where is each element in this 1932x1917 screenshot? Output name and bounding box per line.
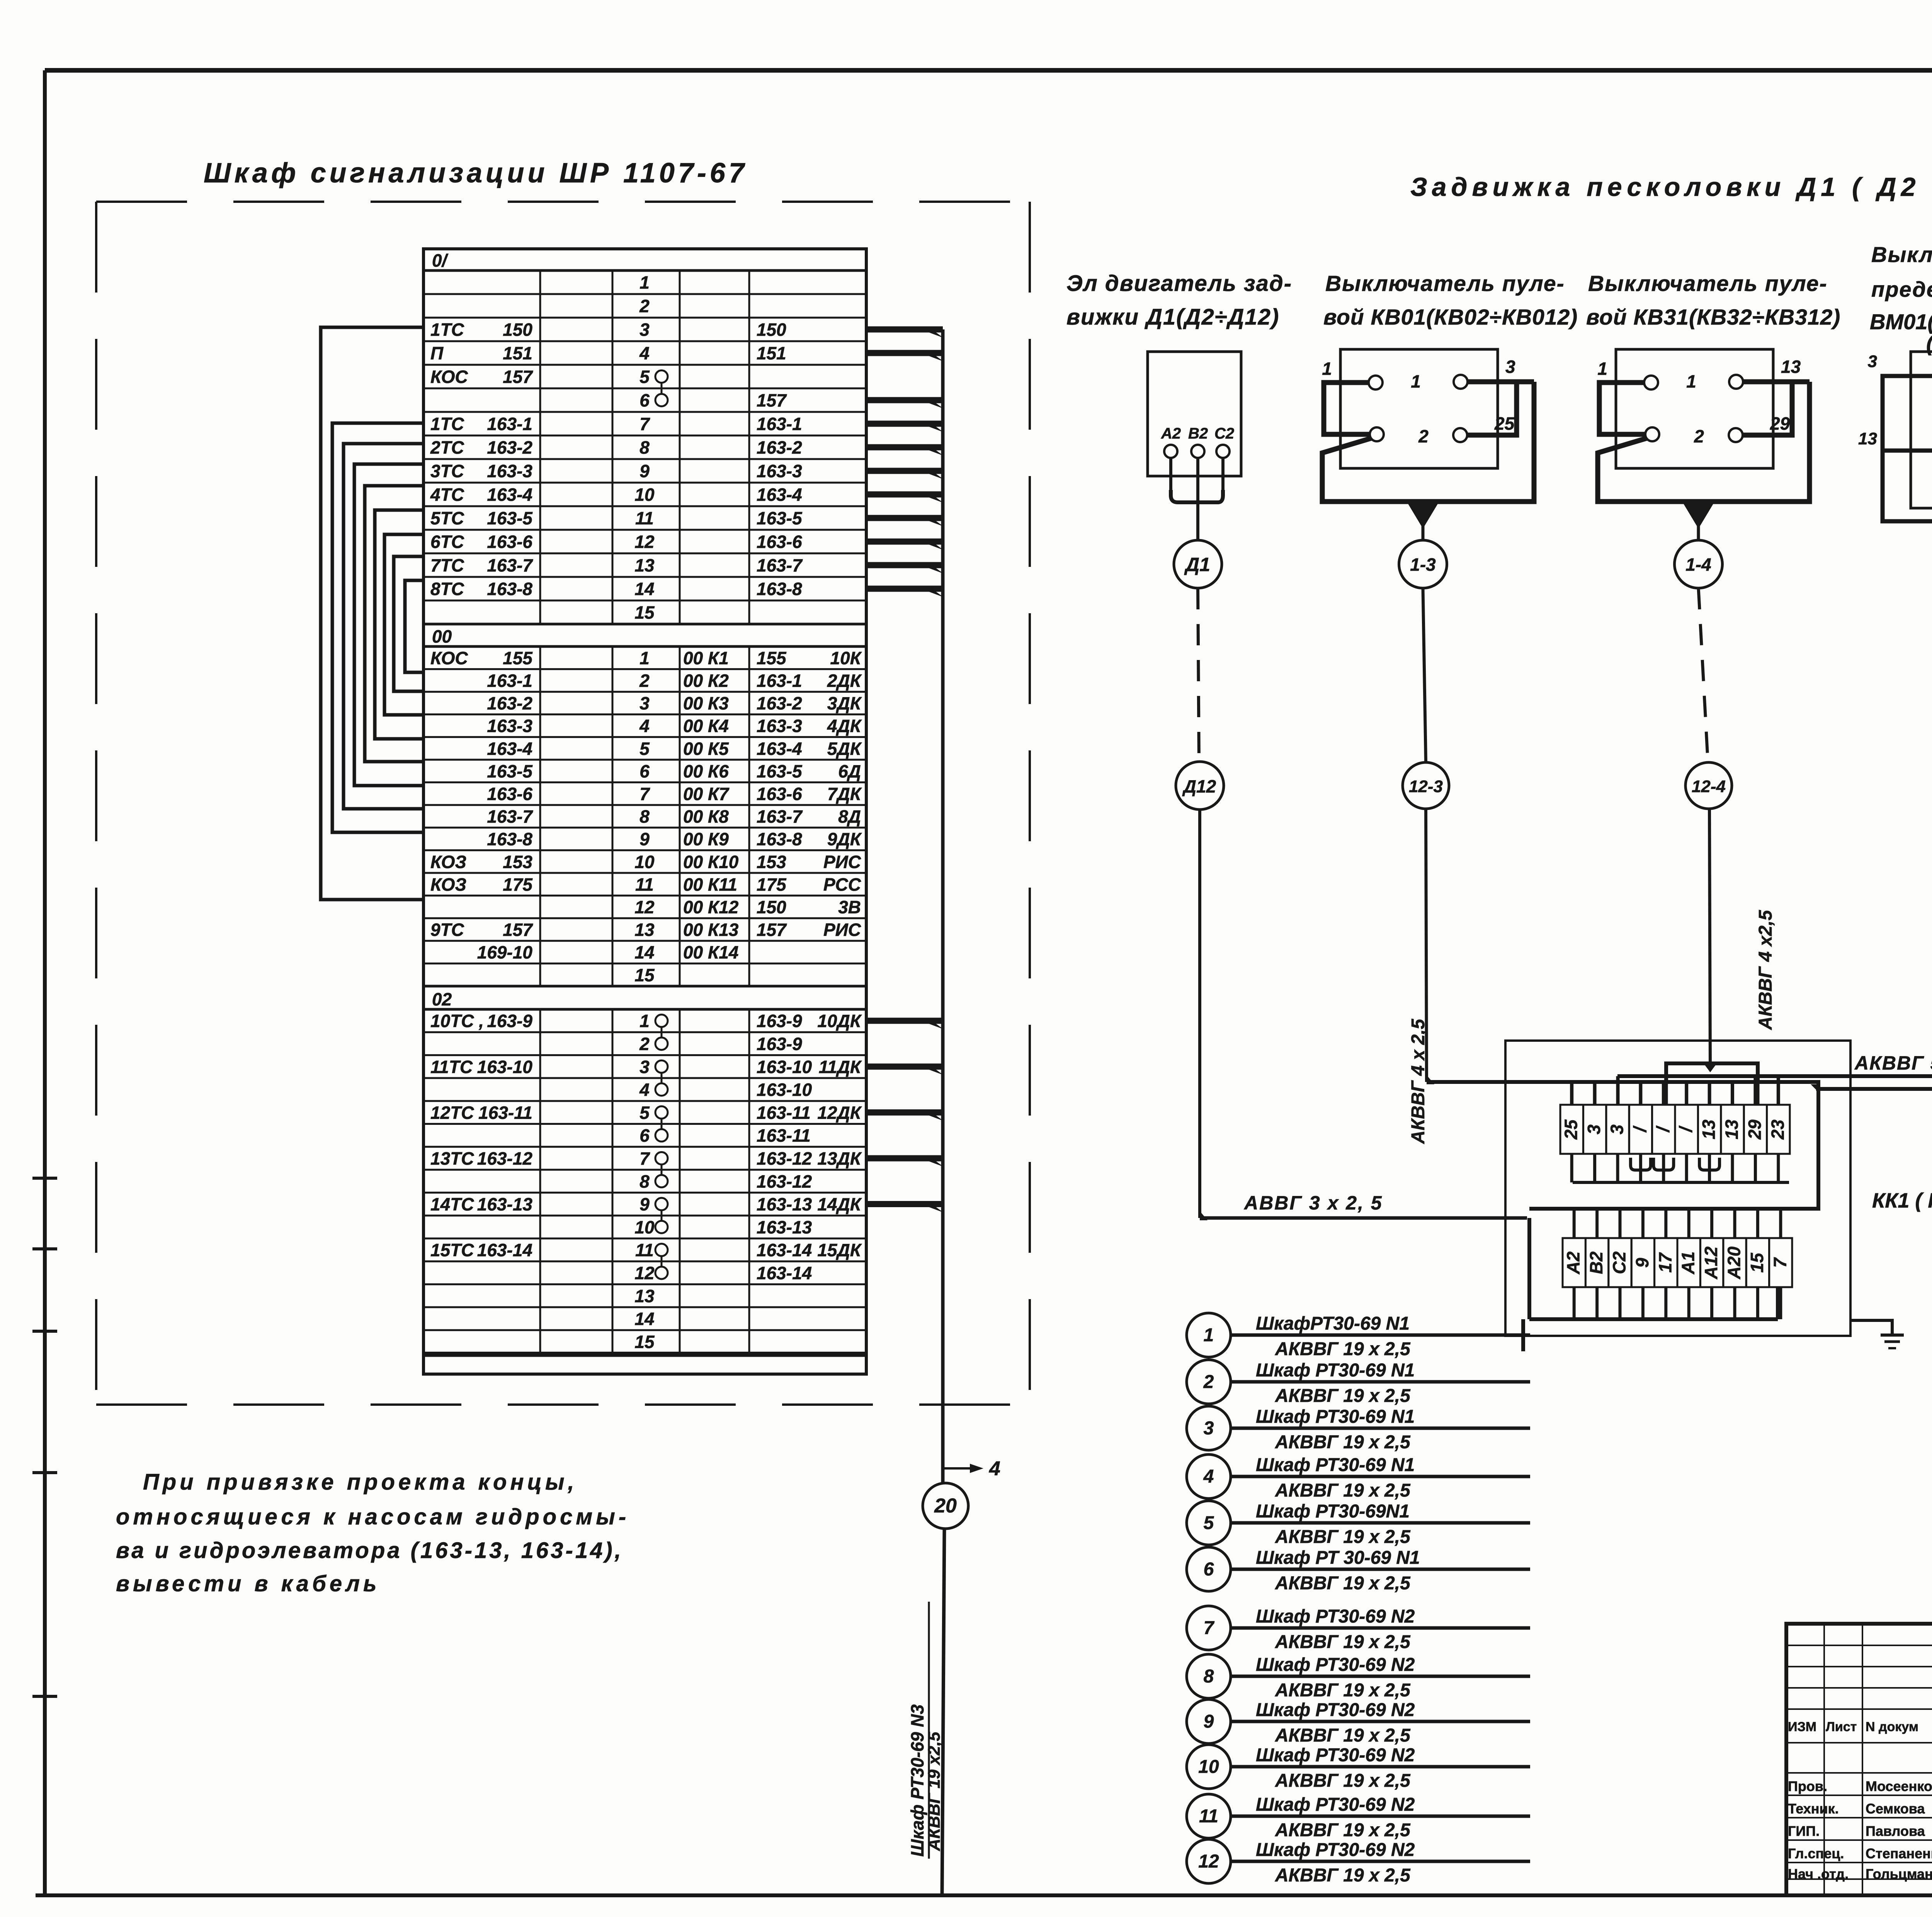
svg-text:10ТС ,: 10ТС , [430, 1011, 484, 1031]
svg-text:КОС: КОС [430, 648, 468, 668]
svg-text:Выключатель муфты: Выключатель муфты [1871, 242, 1932, 267]
svg-text:2: 2 [1418, 426, 1429, 446]
svg-text:12ДК: 12ДК [817, 1102, 862, 1123]
svg-text:163-11: 163-11 [478, 1102, 532, 1123]
svg-text:АКВВГ 5 х 2,5: АКВВГ 5 х 2,5 [1854, 1052, 1932, 1074]
svg-text:169-10: 169-10 [477, 942, 533, 963]
svg-text:14ТС: 14ТС [430, 1194, 474, 1214]
svg-text:1: 1 [1597, 359, 1607, 379]
svg-text:9: 9 [639, 829, 650, 849]
svg-text:ГИП.: ГИП. [1788, 1823, 1820, 1839]
svg-text:АКВВГ 19 х 2,5: АКВВГ 19 х 2,5 [1275, 1527, 1411, 1547]
svg-text:6: 6 [639, 761, 650, 781]
svg-text:163-5: 163-5 [757, 508, 803, 528]
svg-text:20: 20 [934, 1495, 957, 1517]
svg-text:А1: А1 [1678, 1252, 1698, 1275]
svg-text:С2: С2 [1609, 1251, 1629, 1274]
svg-text:АКВВГ 19 х 2,5: АКВВГ 19 х 2,5 [1275, 1865, 1411, 1886]
svg-text:5: 5 [639, 1102, 650, 1123]
svg-text:3ТС: 3ТС [430, 461, 464, 481]
svg-text:163-2: 163-2 [487, 693, 532, 713]
svg-text:Пров.: Пров. [1788, 1778, 1827, 1794]
svg-text:150: 150 [503, 320, 532, 340]
svg-text:Павлова: Павлова [1866, 1823, 1925, 1839]
svg-text:163-1: 163-1 [757, 670, 802, 691]
svg-text:17: 17 [1655, 1252, 1675, 1273]
svg-text:РСС: РСС [823, 874, 861, 895]
svg-text:7: 7 [1770, 1257, 1790, 1268]
svg-text:3: 3 [1607, 1124, 1627, 1135]
svg-text:00 К5: 00 К5 [683, 738, 729, 759]
svg-text:Семкова: Семкова [1866, 1801, 1925, 1817]
svg-text:2: 2 [1203, 1372, 1214, 1392]
svg-text:13ТС: 13ТС [430, 1148, 474, 1169]
svg-text:163-3: 163-3 [487, 716, 532, 736]
svg-text:Мосеенко: Мосеенко [1866, 1778, 1932, 1794]
svg-text:163-11: 163-11 [757, 1126, 811, 1146]
svg-text:11: 11 [635, 874, 654, 895]
svg-text:3: 3 [639, 320, 650, 340]
svg-text:00 К3: 00 К3 [683, 693, 729, 713]
svg-text:13: 13 [634, 555, 655, 575]
svg-text:Выключатель пуле-: Выключатель пуле- [1588, 271, 1828, 296]
svg-text:АКВВГ 4 х 2,5: АКВВГ 4 х 2,5 [1408, 1019, 1429, 1144]
svg-text:9ДК: 9ДК [827, 829, 862, 849]
svg-text:8ТС: 8ТС [430, 579, 464, 599]
svg-text:163-4: 163-4 [757, 738, 802, 759]
svg-text:РИС: РИС [823, 920, 861, 940]
svg-text:8Д: 8Д [838, 806, 861, 827]
svg-text:АКВВГ 19 х 2,5: АКВВГ 19 х 2,5 [1275, 1432, 1411, 1453]
svg-text:Шкаф РТ30-69 N1: Шкаф РТ30-69 N1 [1256, 1360, 1415, 1381]
svg-text:163-6: 163-6 [757, 532, 802, 552]
svg-text:11: 11 [635, 508, 654, 528]
svg-text:АКВВГ 19 х 2,5: АКВВГ 19 х 2,5 [1275, 1771, 1411, 1791]
svg-text:В2: В2 [1586, 1251, 1606, 1274]
svg-text:13: 13 [1699, 1119, 1719, 1140]
svg-text:А2: А2 [1161, 425, 1181, 442]
svg-text:4: 4 [639, 343, 650, 363]
svg-text:Шкаф РТ30-69 N2: Шкаф РТ30-69 N2 [1256, 1655, 1415, 1675]
svg-text:5ТС: 5ТС [430, 508, 464, 528]
svg-text:00: 00 [432, 626, 452, 646]
svg-text:КОЗ: КОЗ [430, 852, 466, 872]
svg-text:3: 3 [1204, 1418, 1214, 1439]
svg-text:150: 150 [757, 897, 786, 917]
svg-text:163-14: 163-14 [757, 1263, 812, 1283]
svg-text:Шкаф РТ30-69 N2: Шкаф РТ30-69 N2 [1256, 1840, 1415, 1860]
svg-text:Шкаф РТ 30-69 N1: Шкаф РТ 30-69 N1 [1256, 1548, 1420, 1568]
svg-text:153: 153 [503, 852, 532, 872]
svg-text:Гл.спец.: Гл.спец. [1788, 1846, 1844, 1861]
svg-text:00 К1: 00 К1 [683, 648, 729, 668]
svg-text:13: 13 [634, 1286, 655, 1306]
svg-text:175: 175 [757, 874, 787, 895]
svg-text:АКВВГ 19 х 2,5: АКВВГ 19 х 2,5 [1275, 1480, 1411, 1501]
svg-text:12: 12 [634, 1263, 655, 1283]
svg-text:175: 175 [503, 874, 533, 895]
svg-text:13: 13 [1781, 357, 1801, 377]
svg-text:1ТС: 1ТС [430, 320, 464, 340]
svg-text:1: 1 [1322, 359, 1332, 379]
svg-text:1: 1 [1204, 1325, 1214, 1345]
svg-text:9: 9 [639, 461, 650, 481]
svg-text:Шкаф РТ30-69 N2: Шкаф РТ30-69 N2 [1256, 1745, 1415, 1766]
svg-text:163-11: 163-11 [757, 1102, 811, 1123]
svg-text:00 К2: 00 К2 [683, 670, 729, 691]
svg-text:12: 12 [1198, 1851, 1219, 1872]
svg-text:12: 12 [634, 897, 655, 917]
svg-text:3: 3 [1584, 1124, 1604, 1135]
svg-text:А20: А20 [1724, 1246, 1744, 1279]
svg-text:11ДК: 11ДК [819, 1057, 862, 1077]
svg-text:153: 153 [757, 852, 786, 872]
svg-text:РИС: РИС [823, 852, 861, 872]
svg-text:Гольцман: Гольцман [1866, 1866, 1932, 1882]
svg-text:КОЗ: КОЗ [430, 874, 466, 895]
svg-text:АКВВГ 19 х 2,5: АКВВГ 19 х 2,5 [1275, 1632, 1411, 1652]
svg-text:163-7: 163-7 [757, 806, 803, 827]
svg-text:00 К4: 00 К4 [683, 716, 729, 736]
svg-text:9: 9 [1632, 1258, 1652, 1268]
svg-text:6: 6 [639, 390, 650, 410]
svg-text:3: 3 [1868, 352, 1877, 371]
svg-text:155: 155 [757, 648, 787, 668]
svg-text:00 К12: 00 К12 [683, 897, 739, 917]
svg-text:АКВВГ 19 х2,5: АКВВГ 19 х2,5 [925, 1732, 944, 1851]
svg-text:157: 157 [757, 390, 787, 410]
svg-text:163-1: 163-1 [487, 414, 532, 434]
svg-text:10: 10 [634, 1217, 655, 1237]
svg-text:9ТС: 9ТС [430, 920, 464, 940]
svg-text:Шкаф РТ30-69 N2: Шкаф РТ30-69 N2 [1256, 1606, 1415, 1627]
svg-text:Нач .отд.: Нач .отд. [1788, 1866, 1849, 1882]
svg-text:00 К13: 00 К13 [683, 920, 739, 940]
svg-text:8: 8 [1204, 1666, 1214, 1687]
svg-text:1ТС: 1ТС [430, 414, 464, 434]
svg-text:163-9: 163-9 [487, 1011, 532, 1031]
svg-text:163-14: 163-14 [757, 1240, 812, 1260]
svg-text:163-13: 163-13 [477, 1194, 533, 1214]
svg-text:163-9: 163-9 [757, 1034, 802, 1054]
svg-text:163-1: 163-1 [487, 670, 532, 691]
svg-text:163-6: 163-6 [757, 784, 802, 804]
svg-text:163-4: 163-4 [757, 485, 802, 505]
svg-text:Лист: Лист [1826, 1720, 1857, 1734]
svg-text:00 К9: 00 К9 [683, 829, 729, 849]
svg-text:3: 3 [639, 1057, 650, 1077]
svg-text:1: 1 [1686, 371, 1696, 391]
svg-text:П: П [430, 343, 444, 363]
svg-text:вижки Д1(Д2÷Д12): вижки Д1(Д2÷Д12) [1066, 304, 1279, 330]
svg-text:155: 155 [503, 648, 533, 668]
svg-text:АВВГ 3 х 2, 5: АВВГ 3 х 2, 5 [1243, 1192, 1383, 1214]
svg-text:163-13: 163-13 [757, 1194, 812, 1214]
svg-text:2: 2 [639, 296, 650, 316]
svg-text:163-1: 163-1 [757, 414, 802, 434]
svg-text:3ДК: 3ДК [827, 693, 862, 713]
svg-text:163-14: 163-14 [477, 1240, 532, 1260]
svg-text:163-3: 163-3 [487, 461, 532, 481]
svg-text:4ТС: 4ТС [430, 485, 464, 505]
svg-text:ва и гидроэлеватора (163-13: ва и гидроэлеватора (163-13, 163-14), [116, 1538, 623, 1563]
svg-text:163-10: 163-10 [477, 1057, 533, 1077]
svg-text:163-4: 163-4 [487, 485, 532, 505]
svg-text:157: 157 [503, 367, 533, 387]
svg-text:предельного момента: предельного момента [1871, 277, 1932, 301]
svg-text:10ДК: 10ДК [817, 1011, 862, 1031]
svg-text:4: 4 [639, 1080, 650, 1100]
svg-text:150: 150 [757, 320, 786, 340]
svg-text:163-12: 163-12 [477, 1148, 533, 1169]
svg-text:163-7: 163-7 [487, 806, 533, 827]
svg-text:Задвижка песколовки Д1 ( Д2: Задвижка песколовки Д1 ( Д2 ÷ Д12) [1410, 172, 1932, 202]
svg-text:относящиеся к насосам гидро: относящиеся к насосам гидросмы- [116, 1504, 629, 1529]
svg-text:8: 8 [639, 1171, 650, 1191]
svg-text:4: 4 [989, 1458, 1000, 1480]
svg-text:7: 7 [639, 1148, 650, 1169]
svg-text:8: 8 [639, 806, 650, 827]
svg-text:0/: 0/ [432, 250, 449, 270]
svg-text:163-8: 163-8 [757, 829, 802, 849]
svg-text:15: 15 [634, 602, 655, 623]
svg-text:1: 1 [639, 272, 650, 293]
svg-text:5: 5 [639, 738, 650, 759]
svg-text:3: 3 [639, 693, 650, 713]
svg-text:9: 9 [1204, 1711, 1214, 1732]
svg-text:3В: 3В [838, 897, 861, 917]
svg-text:6: 6 [1204, 1559, 1214, 1580]
svg-text:Шкаф РТ30-69 N1: Шкаф РТ30-69 N1 [1256, 1407, 1415, 1427]
svg-text:25: 25 [1494, 413, 1515, 434]
svg-text:9: 9 [639, 1194, 650, 1214]
svg-text:2: 2 [639, 1034, 650, 1054]
svg-text:151: 151 [757, 343, 786, 363]
svg-text:КК1 ( КК2 ÷ КК12): КК1 ( КК2 ÷ КК12) [1872, 1189, 1932, 1212]
svg-text:29: 29 [1770, 413, 1790, 434]
svg-text:163-8: 163-8 [487, 829, 532, 849]
svg-text:5: 5 [1204, 1513, 1214, 1533]
svg-text:При привязке проекта концы,: При привязке проекта концы, [143, 1470, 578, 1495]
svg-text:вой КВ31(КВ32÷КВ312): вой КВ31(КВ32÷КВ312) [1586, 305, 1840, 330]
svg-text:15: 15 [1747, 1252, 1767, 1273]
svg-text:АКВВГ 19 х 2,5: АКВВГ 19 х 2,5 [1275, 1386, 1411, 1406]
svg-text:163-5: 163-5 [487, 508, 533, 528]
svg-text:23: 23 [1767, 1119, 1787, 1140]
svg-text:13: 13 [1858, 429, 1877, 448]
svg-text:00 К10: 00 К10 [683, 852, 739, 872]
svg-text:10: 10 [634, 852, 655, 872]
svg-text:11: 11 [635, 1240, 654, 1260]
svg-text:ШкафРТ30-69 N1: ШкафРТ30-69 N1 [1256, 1313, 1410, 1334]
svg-text:163-2: 163-2 [487, 437, 532, 458]
svg-text:157: 157 [757, 920, 787, 940]
svg-text:14: 14 [634, 579, 654, 599]
svg-text:Д12: Д12 [1182, 776, 1216, 796]
svg-text:163-5: 163-5 [757, 761, 803, 781]
svg-text:5: 5 [639, 367, 650, 387]
svg-text:АКВВГ 19 х 2,5: АКВВГ 19 х 2,5 [1275, 1725, 1411, 1746]
svg-text:29: 29 [1745, 1119, 1765, 1140]
svg-text:15ДК: 15ДК [817, 1240, 862, 1260]
svg-text:ИЗМ: ИЗМ [1788, 1720, 1816, 1734]
svg-text:С2: С2 [1214, 425, 1234, 442]
svg-text:2ДК: 2ДК [827, 670, 862, 691]
svg-text:5ДК: 5ДК [827, 738, 862, 759]
svg-text:163-8: 163-8 [757, 579, 802, 599]
svg-text:АКВВГ 19 х 2,5: АКВВГ 19 х 2,5 [1275, 1339, 1411, 1359]
svg-text:163-13: 163-13 [757, 1217, 812, 1237]
svg-text:163-2: 163-2 [757, 693, 802, 713]
svg-text:163-10: 163-10 [757, 1057, 812, 1077]
svg-text:8: 8 [639, 437, 650, 458]
svg-text:25: 25 [1561, 1119, 1581, 1140]
svg-text:АКВВГ 19 х 2,5: АКВВГ 19 х 2,5 [1275, 1573, 1411, 1594]
svg-text:10К: 10К [830, 648, 862, 668]
svg-text:6: 6 [639, 1126, 650, 1146]
svg-text:163-6: 163-6 [487, 532, 532, 552]
svg-text:12ТС: 12ТС [430, 1102, 474, 1123]
svg-text:11ТС: 11ТС [430, 1057, 473, 1077]
svg-text:Шкаф РТ30-69 N1: Шкаф РТ30-69 N1 [1256, 1455, 1415, 1475]
svg-text:00 К6: 00 К6 [683, 761, 729, 781]
svg-text:00 К14: 00 К14 [683, 942, 738, 963]
svg-text:7ТС: 7ТС [430, 555, 464, 575]
svg-text:1-4: 1-4 [1685, 555, 1711, 575]
svg-text:КОС: КОС [430, 367, 468, 387]
svg-text:А12: А12 [1701, 1246, 1721, 1279]
svg-text:00 К11: 00 К11 [683, 874, 737, 895]
svg-text:13: 13 [1722, 1119, 1742, 1140]
svg-text:12: 12 [634, 532, 655, 552]
svg-text:2: 2 [1694, 426, 1704, 446]
svg-text:ВМ01(ВМ02÷ВМ012, ВМ31: ВМ01(ВМ02÷ВМ012, ВМ31 [1870, 310, 1932, 334]
svg-text:14: 14 [634, 942, 654, 963]
svg-text:13: 13 [634, 920, 655, 940]
svg-text:163-5: 163-5 [487, 761, 533, 781]
svg-text:2ТС: 2ТС [430, 437, 464, 458]
svg-text:1: 1 [639, 1011, 650, 1031]
svg-text:12-3: 12-3 [1409, 777, 1443, 796]
svg-text:15ТС: 15ТС [430, 1240, 474, 1260]
svg-text:Степаненко: Степаненко [1866, 1846, 1932, 1861]
svg-text:15: 15 [634, 965, 655, 985]
svg-text:163-12: 163-12 [757, 1148, 812, 1169]
svg-text:13ДК: 13ДК [817, 1148, 862, 1169]
svg-text:АКВВГ 19 х 2,5: АКВВГ 19 х 2,5 [1275, 1680, 1411, 1701]
svg-text:15: 15 [634, 1332, 655, 1352]
svg-text:163-2: 163-2 [757, 437, 802, 458]
svg-text:163-8: 163-8 [487, 579, 532, 599]
svg-text:Выключатель пуле-: Выключатель пуле- [1325, 271, 1565, 296]
svg-text:Шкаф РТ30-69N1: Шкаф РТ30-69N1 [1256, 1501, 1410, 1522]
svg-text:10: 10 [634, 485, 655, 505]
svg-text:163-12: 163-12 [757, 1171, 812, 1191]
svg-text:1: 1 [1411, 371, 1421, 391]
svg-text:163-9: 163-9 [757, 1011, 802, 1031]
svg-text:151: 151 [503, 343, 532, 363]
svg-text:1-3: 1-3 [1410, 555, 1436, 575]
svg-text:7: 7 [1204, 1618, 1215, 1638]
svg-text:163-3: 163-3 [757, 461, 802, 481]
svg-text:163-3: 163-3 [757, 716, 802, 736]
svg-text:7ДК: 7ДК [827, 784, 862, 804]
svg-text:11: 11 [1199, 1806, 1218, 1827]
svg-text:163-10: 163-10 [757, 1080, 812, 1100]
svg-text:163-6: 163-6 [487, 784, 532, 804]
svg-text:4: 4 [1203, 1466, 1214, 1487]
svg-text:4ДК: 4ДК [827, 716, 862, 736]
svg-text:Шкаф РТ30-69 N2: Шкаф РТ30-69 N2 [1256, 1700, 1415, 1720]
svg-text:00 К8: 00 К8 [683, 806, 729, 827]
svg-text:6ТС: 6ТС [430, 532, 464, 552]
svg-text:Техник.: Техник. [1788, 1801, 1839, 1817]
svg-text:А2: А2 [1563, 1251, 1583, 1274]
svg-text:6Д: 6Д [838, 761, 861, 781]
svg-text:АКВВГ 4 х2,5: АКВВГ 4 х2,5 [1755, 910, 1776, 1030]
svg-text:1: 1 [639, 648, 650, 668]
svg-text:2: 2 [639, 670, 650, 691]
svg-text:вывести в кабель: вывести в кабель [116, 1571, 380, 1596]
svg-text:163-7: 163-7 [757, 555, 803, 575]
svg-text:3: 3 [1505, 357, 1515, 377]
svg-text:14: 14 [634, 1309, 654, 1329]
svg-text:163-4: 163-4 [487, 738, 532, 759]
svg-text:вой КВ01(КВ02÷КВ012): вой КВ01(КВ02÷КВ012) [1323, 305, 1578, 330]
svg-text:00 К7: 00 К7 [683, 784, 730, 804]
svg-text:163-7: 163-7 [487, 555, 533, 575]
svg-text:4: 4 [639, 716, 650, 736]
svg-text:7: 7 [639, 414, 650, 434]
svg-text:Шкаф РТ30-69 N2: Шкаф РТ30-69 N2 [1256, 1795, 1415, 1815]
svg-text:Шкаф сигнализации ШР 1107-67: Шкаф сигнализации ШР 1107-67 [204, 158, 748, 189]
svg-text:Эл двигатель зад-: Эл двигатель зад- [1066, 271, 1292, 296]
svg-text:N докум: N докум [1866, 1720, 1918, 1734]
svg-text:12-4: 12-4 [1692, 777, 1726, 796]
svg-text:АКВВГ 19 х 2,5: АКВВГ 19 х 2,5 [1275, 1820, 1411, 1840]
svg-text:14ДК: 14ДК [817, 1194, 862, 1214]
svg-text:10: 10 [1198, 1757, 1219, 1777]
svg-text:7: 7 [639, 784, 650, 804]
svg-text:157: 157 [503, 920, 533, 940]
svg-text:В2: В2 [1188, 425, 1208, 442]
svg-text:Д1: Д1 [1184, 554, 1210, 575]
svg-text:02: 02 [432, 989, 452, 1009]
